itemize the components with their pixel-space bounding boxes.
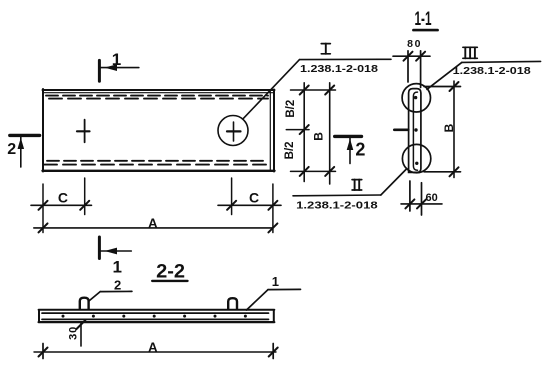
plan view: lifting loop position cross left — [77, 120, 90, 143]
section 2-2: rebar cross-section dots — [62, 315, 247, 318]
plan view: hidden reinforcement dashed lines bottom — [44, 161, 268, 165]
svg-text:1: 1 — [112, 258, 121, 277]
dimension 80 (section 1-1 width) — [393, 38, 430, 88]
section mark 1 bottom — [99, 237, 131, 277]
dimension B/2 B/2 (right of plan) — [284, 83, 309, 182]
svg-text:1.238.1-2-018: 1.238.1-2-018 — [300, 64, 379, 75]
svg-text:B/2: B/2 — [284, 141, 296, 159]
svg-text:2: 2 — [114, 277, 121, 292]
leader and label II with text 1.238.1-2-018 — [293, 169, 407, 212]
cut plane tick 2 at left of section 1-1 — [394, 129, 408, 132]
svg-text:A: A — [148, 339, 158, 354]
svg-text:B/2: B/2 — [285, 100, 297, 118]
dimension C right — [218, 189, 281, 210]
svg-text:1.238.1-2-018: 1.238.1-2-018 — [453, 66, 532, 77]
lifting loop left (section 2-2) — [80, 298, 89, 309]
section 1-1: plate outline — [409, 89, 421, 173]
lifting loop right (section 2-2) — [228, 298, 237, 309]
leader and label 2 (lifting loop) — [88, 277, 132, 301]
svg-text:1.238.1-2-018: 1.238.1-2-018 — [296, 201, 378, 212]
extension lines for plan dimensions — [43, 178, 273, 233]
svg-text:1: 1 — [272, 274, 279, 289]
svg-text:30: 30 — [68, 326, 80, 340]
dimension A (below section 2-2) — [34, 339, 278, 358]
dimension A (below plan) — [34, 215, 278, 232]
detail callout circle I around right loop position — [218, 116, 248, 146]
dimension B (section 1-1 height) — [424, 81, 461, 178]
dimension 30 (section 2-2) — [68, 320, 86, 346]
section 1-1: reinforcement mesh bar with hooks — [413, 92, 417, 170]
plan view: hidden reinforcement dashed lines top — [46, 96, 268, 99]
svg-text:B: B — [442, 123, 456, 132]
leader and label I with text 1.238.1-2-018 — [244, 44, 392, 119]
svg-text:A: A — [148, 215, 158, 230]
svg-text:80: 80 — [407, 38, 422, 50]
svg-text:B: B — [311, 132, 325, 141]
svg-text:1: 1 — [112, 50, 121, 69]
leader and label III with text 1.238.1-2-018 — [427, 47, 541, 89]
svg-text:C: C — [58, 189, 68, 205]
dimension B (right of plan) — [311, 83, 334, 184]
svg-text:2: 2 — [7, 141, 16, 158]
detail circle II (bottom of section 1-1) — [402, 144, 430, 172]
section 1-1: rebar cross-section dots — [414, 96, 419, 165]
plan view: plate outline — [43, 89, 275, 172]
svg-text:2: 2 — [355, 140, 365, 160]
section mark 2 left — [7, 135, 39, 167]
section 2-2: plate body — [39, 310, 275, 322]
svg-text:1-1: 1-1 — [415, 9, 432, 30]
leader and label 1 (mesh) — [247, 274, 301, 310]
section mark 2 right (beside section 1-1) — [335, 136, 366, 163]
detail circle III (top of section 1-1) — [402, 84, 430, 112]
extension lines for B/2 and B dimensions right of plan — [286, 90, 335, 171]
section title 2-2 — [152, 262, 187, 283]
svg-text:C: C — [249, 189, 259, 205]
svg-text:2-2: 2-2 — [156, 262, 185, 283]
section mark 1 top — [99, 50, 138, 81]
svg-text:60: 60 — [425, 192, 437, 204]
dimension 60 (below section 1-1) — [401, 181, 442, 215]
section title 1-1 — [413, 9, 437, 30]
dimension C left — [31, 189, 92, 210]
